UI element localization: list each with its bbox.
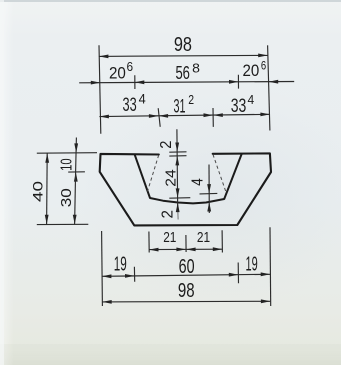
- thin continuation below: [177, 209, 179, 220]
- dimension 30: [75, 172, 76, 225]
- groove bottom (sagging): [150, 198, 224, 203]
- tick top-b: [169, 155, 186, 157]
- svg-text:60: 60: [179, 256, 195, 278]
- dimension 40: [46, 153, 49, 224]
- dimension row 33.4 / 31.2 / 33.4: [99, 114, 270, 116]
- svg-text:98: 98: [174, 34, 192, 56]
- dimension 21 | 21: [149, 248, 222, 250]
- extension line left (top block): [99, 45, 101, 133]
- groove left wall: [134, 154, 150, 198]
- svg-text:4: 4: [189, 178, 206, 186]
- svg-text:2: 2: [159, 210, 176, 219]
- svg-text:33: 33: [123, 95, 137, 116]
- tick bottom (y=198): [169, 197, 190, 200]
- svg-text:4: 4: [139, 90, 146, 106]
- svg-text:56: 56: [175, 63, 190, 83]
- dimension 10: [75, 138, 78, 172]
- tick at 134.8: [134, 75, 136, 89]
- vertical dim line 4: [208, 165, 210, 214]
- tick top-a: [169, 151, 186, 153]
- extension line bottom (left block): [37, 223, 89, 225]
- groove right wall: [224, 154, 242, 199]
- svg-text:20: 20: [109, 63, 126, 82]
- tick at 158.5: [158, 108, 160, 127]
- svg-text:21: 21: [163, 229, 176, 246]
- svg-text:24: 24: [163, 169, 180, 187]
- hidden edge right (thin dashed): [213, 155, 226, 192]
- tick at 238.5: [237, 75, 239, 89]
- hidden edge left (thin dashed): [148, 155, 159, 191]
- svg-text:8: 8: [192, 60, 200, 75]
- svg-text:2: 2: [188, 92, 194, 107]
- svg-text:19: 19: [246, 253, 258, 275]
- svg-text:33: 33: [231, 96, 247, 117]
- svg-text:2: 2: [158, 141, 175, 149]
- ext line left (bottom block): [101, 231, 104, 306]
- svg-text:31: 31: [174, 97, 186, 118]
- tick at y=193.7: [200, 192, 218, 195]
- extension line top (left block): [37, 152, 97, 155]
- dimension 19 / 60 / 19: [102, 274, 270, 276]
- svg-text:30: 30: [58, 188, 75, 207]
- dimension row 20.6 / 56.8 / 20.6: [79, 82, 294, 83]
- svg-text:40: 40: [30, 181, 46, 202]
- svg-text:20: 20: [243, 61, 260, 80]
- ext line right (bottom block): [269, 227, 272, 306]
- tick 19/60: [133, 267, 135, 282]
- svg-text:6: 6: [127, 59, 134, 74]
- svg-text:10: 10: [58, 158, 75, 171]
- ext mid tick 21-row: [185, 235, 187, 252]
- svg-text:19: 19: [114, 253, 127, 275]
- ext line right 21-row: [221, 230, 223, 252]
- vertical dim line center (2,24,2): [176, 129, 179, 208]
- dimension 98 (bottom): [102, 300, 270, 303]
- dimension 98 (top): [99, 55, 268, 56]
- tick at y=172: [68, 171, 85, 173]
- svg-text:6: 6: [261, 58, 267, 72]
- part outline: trapezoidal block profile: [100, 153, 271, 225]
- extension line right (top block): [268, 45, 270, 130]
- tick at 213: [212, 108, 214, 127]
- svg-text:21: 21: [197, 229, 210, 246]
- ext line left 21-row: [148, 232, 150, 253]
- svg-text:4: 4: [247, 92, 254, 107]
- tick 60/19: [237, 263, 239, 284]
- svg-text:98: 98: [178, 280, 195, 302]
